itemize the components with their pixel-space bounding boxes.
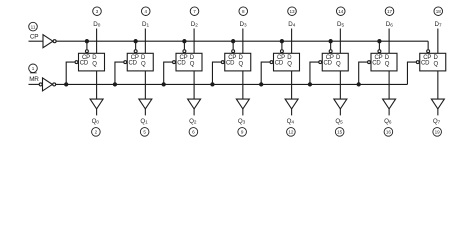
svg-text:12: 12 [288,130,294,135]
node D2 pin 7 [190,7,199,28]
wire D7 input [437,29,439,54]
svg-text:CD: CD [80,61,89,67]
wire D4 input [291,29,293,54]
svg-text:14: 14 [338,9,344,14]
flip-flop FF1 [127,53,153,71]
node Q1 pin 5 [140,118,149,136]
wire CP tap FF6 [378,40,381,53]
buffer Q5 output driver [334,99,347,109]
wire Q3 stub [242,109,244,116]
wire Q3 output [242,71,244,99]
buffer Q3 output driver [236,99,249,109]
svg-text:D0: D0 [93,21,100,28]
node D0 pin 3 [93,7,102,28]
svg-text:D: D [287,55,292,61]
wire Q5 stub [339,109,341,116]
wire MR tap FF4 [260,61,273,86]
flip-flop FF7 [420,53,446,71]
svg-text:CD: CD [323,61,332,67]
svg-text:D5: D5 [337,21,344,28]
inverter U2 (MR buffer) [39,78,56,91]
wire D1 input [144,29,146,54]
node Q6 pin 16 [384,118,393,136]
svg-text:7: 7 [193,9,196,14]
svg-text:Q7: Q7 [433,118,441,125]
wire Q1 stub [144,109,146,116]
svg-text:D7: D7 [435,21,442,28]
svg-text:Q0: Q0 [92,118,100,125]
svg-text:11: 11 [31,24,36,29]
svg-text:3: 3 [96,9,99,14]
buffer Q1 output driver [139,99,152,109]
flip-flop FF0 [79,53,105,71]
flip-flop FF5 [322,53,348,71]
node D4 pin 13 [288,7,297,28]
svg-text:D: D [434,55,439,61]
svg-text:Q: Q [385,61,390,67]
svg-text:17: 17 [387,9,393,14]
svg-text:D4: D4 [288,21,295,28]
wire Q0 stub [96,109,98,116]
svg-text:D3: D3 [240,21,247,28]
svg-text:CD: CD [128,61,137,67]
svg-text:D1: D1 [142,21,149,28]
wire Q0 output [96,71,98,99]
svg-text:Q: Q [190,61,195,67]
wire D3 input [242,29,244,54]
wire Q4 stub [291,109,293,116]
wire Q7 output [437,71,439,99]
wire MR tap FF1 [113,61,126,86]
wire Q6 stub [388,109,390,116]
svg-text:18: 18 [436,9,442,14]
wire MR tap FF6 [357,61,370,86]
buffer Q7 output driver [431,99,444,109]
wire MR input [29,83,40,85]
node Q5 pin 15 [335,118,344,136]
svg-text:CD: CD [177,61,186,67]
svg-text:D: D [190,55,195,61]
svg-text:CD: CD [226,61,235,67]
buffer Q4 output driver [285,99,298,109]
svg-text:D: D [141,55,146,61]
wire MR tap FF3 [211,61,224,86]
svg-text:Q: Q [141,61,146,67]
inverter U1 (CP buffer) [43,35,56,48]
svg-text:D: D [385,55,390,61]
svg-text:Q6: Q6 [384,118,392,125]
svg-text:MR: MR [29,76,39,83]
wire Q2 output [193,71,195,99]
svg-text:16: 16 [386,130,392,135]
wire CP tap FF0 [85,40,88,53]
svg-text:D: D [336,55,341,61]
flip-flop FF6 [371,53,397,71]
node Q3 pin 9 [238,118,247,136]
wire D0 input [96,29,98,54]
node CP pin 11 [29,22,39,40]
svg-text:Q2: Q2 [189,118,197,125]
svg-text:Q: Q [238,61,243,67]
svg-text:8: 8 [242,9,245,14]
flip-flop FF3 [225,53,251,71]
node D5 pin 14 [336,7,345,28]
buffer Q0 output driver [90,99,103,109]
wire CP tap FF2 [183,40,186,53]
svg-text:Q: Q [433,61,438,67]
wire D5 input [339,29,341,54]
flip-flop FF2 [176,53,202,71]
wire MR tap FF5 [308,61,321,86]
svg-text:Q1: Q1 [140,118,148,125]
buffer Q2 output driver [188,99,201,109]
svg-text:D6: D6 [386,21,393,28]
svg-text:19: 19 [435,130,441,135]
wire MR tap FF2 [162,61,175,86]
flip-flop FF4 [274,53,300,71]
node D7 pin 18 [434,7,443,28]
wire MR tap FF7 [407,61,419,85]
node Q0 pin 2 [92,118,101,136]
svg-text:CD: CD [275,61,284,67]
wire MR tap FF0 [65,61,78,86]
svg-text:D: D [92,55,97,61]
wire CP input [29,40,44,42]
wire D2 input [193,29,195,54]
svg-text:CD: CD [372,61,381,67]
svg-text:4: 4 [144,9,147,14]
svg-text:D2: D2 [191,21,198,28]
svg-text:CD: CD [421,61,430,67]
svg-text:1: 1 [32,66,35,71]
svg-text:CP: CP [30,34,38,41]
wire Q1 output [144,71,146,99]
wire CP bus [56,40,428,42]
svg-text:9: 9 [241,130,244,135]
node MR pin 1 [29,64,40,83]
svg-text:D: D [239,55,244,61]
svg-text:6: 6 [192,130,195,135]
node D1 pin 4 [141,7,150,28]
node Q7 pin 19 [433,118,442,136]
wire Q4 output [291,71,293,99]
wire CP tap FF4 [280,40,283,53]
svg-text:Q: Q [336,61,341,67]
wire Q6 output [388,71,390,99]
wire CP tap FF5 [329,40,332,53]
wire MR bus [56,83,408,85]
svg-text:Q3: Q3 [238,118,246,125]
svg-text:13: 13 [289,9,295,14]
wire D6 input [388,29,390,54]
svg-text:Q4: Q4 [287,118,295,125]
svg-text:5: 5 [143,130,146,135]
node Q2 pin 6 [189,118,198,136]
node Q4 pin 12 [287,118,296,136]
wire CP tap FF7 [427,41,430,52]
wire CP tap FF1 [134,40,137,53]
svg-text:Q: Q [92,61,97,67]
wire Q7 stub [437,109,439,116]
svg-text:Q: Q [287,61,292,67]
wire Q5 output [339,71,341,99]
node D3 pin 8 [239,7,248,28]
node D6 pin 17 [385,7,394,28]
buffer Q6 output driver [383,99,396,109]
svg-text:2: 2 [95,130,98,135]
svg-text:15: 15 [337,130,343,135]
wire Q2 stub [193,109,195,116]
wire CP tap FF3 [232,40,235,53]
svg-text:Q5: Q5 [335,118,343,125]
